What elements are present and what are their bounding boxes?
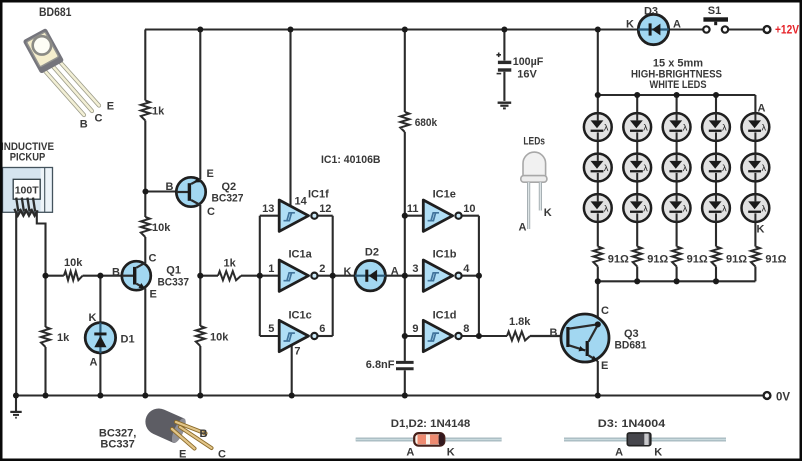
svg-text:1k: 1k <box>57 332 70 344</box>
svg-text:10k: 10k <box>64 257 83 269</box>
svg-text:1.8k: 1.8k <box>509 316 531 328</box>
svg-text:E: E <box>207 168 214 180</box>
svg-text:B: B <box>166 181 174 193</box>
svg-text:λ: λ <box>722 122 727 132</box>
svg-text:Q3: Q3 <box>624 328 639 340</box>
svg-text:λ: λ <box>604 203 609 213</box>
svg-text:C: C <box>601 305 609 317</box>
svg-text:1k: 1k <box>152 106 165 118</box>
svg-text:6: 6 <box>319 323 325 335</box>
svg-text:K: K <box>89 312 97 324</box>
svg-text:91Ω: 91Ω <box>687 253 708 265</box>
svg-text:3: 3 <box>412 263 418 275</box>
svg-text:2: 2 <box>319 263 325 275</box>
svg-text:E: E <box>107 100 114 112</box>
svg-text:λ: λ <box>722 163 727 173</box>
svg-text:B: B <box>200 428 208 440</box>
svg-text:K: K <box>544 207 552 219</box>
svg-text:K: K <box>654 447 662 459</box>
svg-text:IC1d: IC1d <box>433 310 457 322</box>
svg-text:E: E <box>150 289 157 301</box>
svg-text:8: 8 <box>463 323 469 335</box>
svg-text:A: A <box>391 266 399 278</box>
svg-text:λ: λ <box>643 163 648 173</box>
svg-text:WHITE LEDS: WHITE LEDS <box>650 79 707 91</box>
svg-text:λ: λ <box>722 203 727 213</box>
svg-text:λ: λ <box>604 163 609 173</box>
svg-text:λ: λ <box>604 122 609 132</box>
svg-text:10: 10 <box>463 203 475 215</box>
svg-text:0V: 0V <box>776 392 790 404</box>
svg-text:IC1a: IC1a <box>289 248 313 260</box>
svg-text:B: B <box>112 267 120 279</box>
svg-text:A: A <box>758 103 766 115</box>
svg-text:1k: 1k <box>224 258 237 270</box>
svg-text:IC1: 40106B: IC1: 40106B <box>321 154 381 166</box>
svg-text:91Ω: 91Ω <box>726 253 747 265</box>
svg-text:E: E <box>601 360 608 372</box>
svg-text:BC327: BC327 <box>212 193 244 205</box>
svg-text:A: A <box>519 221 527 233</box>
svg-text:λ: λ <box>762 163 767 173</box>
svg-text:K: K <box>344 266 352 278</box>
svg-text:D1: D1 <box>121 334 135 346</box>
svg-text:BC337: BC337 <box>158 277 190 289</box>
svg-text:D2: D2 <box>365 246 379 258</box>
svg-text:6.8nF: 6.8nF <box>366 359 395 371</box>
svg-text:Q1: Q1 <box>166 265 181 277</box>
svg-text:13: 13 <box>262 203 274 215</box>
svg-text:IC1f: IC1f <box>308 188 329 200</box>
svg-text:D3: D3 <box>644 6 658 18</box>
svg-text:D1,D2: 1N4148: D1,D2: 1N4148 <box>391 418 471 430</box>
svg-text:91Ω: 91Ω <box>647 253 668 265</box>
svg-text:9: 9 <box>412 323 418 335</box>
svg-text:K: K <box>626 19 634 31</box>
svg-text:λ: λ <box>762 122 767 132</box>
svg-text:C: C <box>149 253 157 265</box>
svg-text:λ: λ <box>643 122 648 132</box>
svg-text:A: A <box>90 357 98 369</box>
svg-text:λ: λ <box>683 203 688 213</box>
svg-text:LEDs: LEDs <box>523 135 545 147</box>
svg-text:14: 14 <box>295 195 308 207</box>
svg-text:IC1e: IC1e <box>433 188 456 200</box>
svg-text:λ: λ <box>683 122 688 132</box>
svg-text:B: B <box>80 119 88 131</box>
svg-text:C: C <box>207 206 215 218</box>
svg-text:B: B <box>550 327 558 339</box>
svg-text:91Ω: 91Ω <box>608 253 629 265</box>
svg-text:BD681: BD681 <box>39 7 72 19</box>
svg-text:BD681: BD681 <box>615 340 647 352</box>
svg-text:4: 4 <box>463 263 470 275</box>
svg-text:5: 5 <box>268 323 274 335</box>
svg-text:100T: 100T <box>15 184 40 196</box>
svg-text:680k: 680k <box>415 117 438 129</box>
svg-text:A: A <box>615 447 623 459</box>
svg-text:16V: 16V <box>517 68 537 80</box>
svg-text:11: 11 <box>407 203 419 215</box>
svg-text:λ: λ <box>762 203 767 213</box>
svg-text:PICKUP: PICKUP <box>10 152 46 164</box>
svg-text:+12V: +12V <box>775 25 799 37</box>
svg-text:K: K <box>757 224 765 236</box>
svg-text:7: 7 <box>294 345 300 357</box>
svg-text:BC337: BC337 <box>100 438 134 450</box>
svg-text:A: A <box>406 447 414 459</box>
svg-text:91Ω: 91Ω <box>765 253 786 265</box>
svg-text:C: C <box>95 113 103 125</box>
svg-text:A: A <box>673 19 681 31</box>
svg-text:10k: 10k <box>210 332 229 344</box>
svg-text:Q2: Q2 <box>222 181 237 193</box>
svg-text:IC1b: IC1b <box>433 248 457 260</box>
svg-text:IC1c: IC1c <box>289 310 312 322</box>
svg-text:S1: S1 <box>708 5 721 17</box>
svg-text:λ: λ <box>683 163 688 173</box>
svg-text:100µF: 100µF <box>513 56 544 68</box>
svg-text:12: 12 <box>319 203 331 215</box>
svg-text:D3: 1N4004: D3: 1N4004 <box>598 418 666 430</box>
svg-text:1: 1 <box>268 263 274 275</box>
svg-text:10k: 10k <box>152 222 171 234</box>
svg-text:K: K <box>447 447 455 459</box>
svg-text:λ: λ <box>643 203 648 213</box>
